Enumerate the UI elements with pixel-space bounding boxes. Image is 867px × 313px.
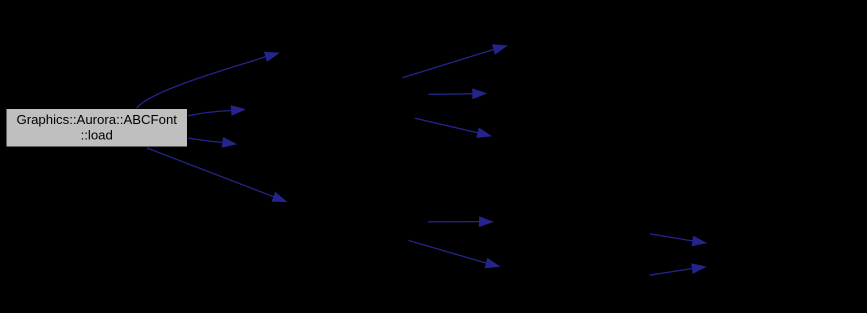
svg-text:Graphics::Aurora::ABCFont: Graphics::Aurora::ABCFont	[16, 112, 177, 127]
svg-text:::load: ::load	[81, 128, 113, 143]
